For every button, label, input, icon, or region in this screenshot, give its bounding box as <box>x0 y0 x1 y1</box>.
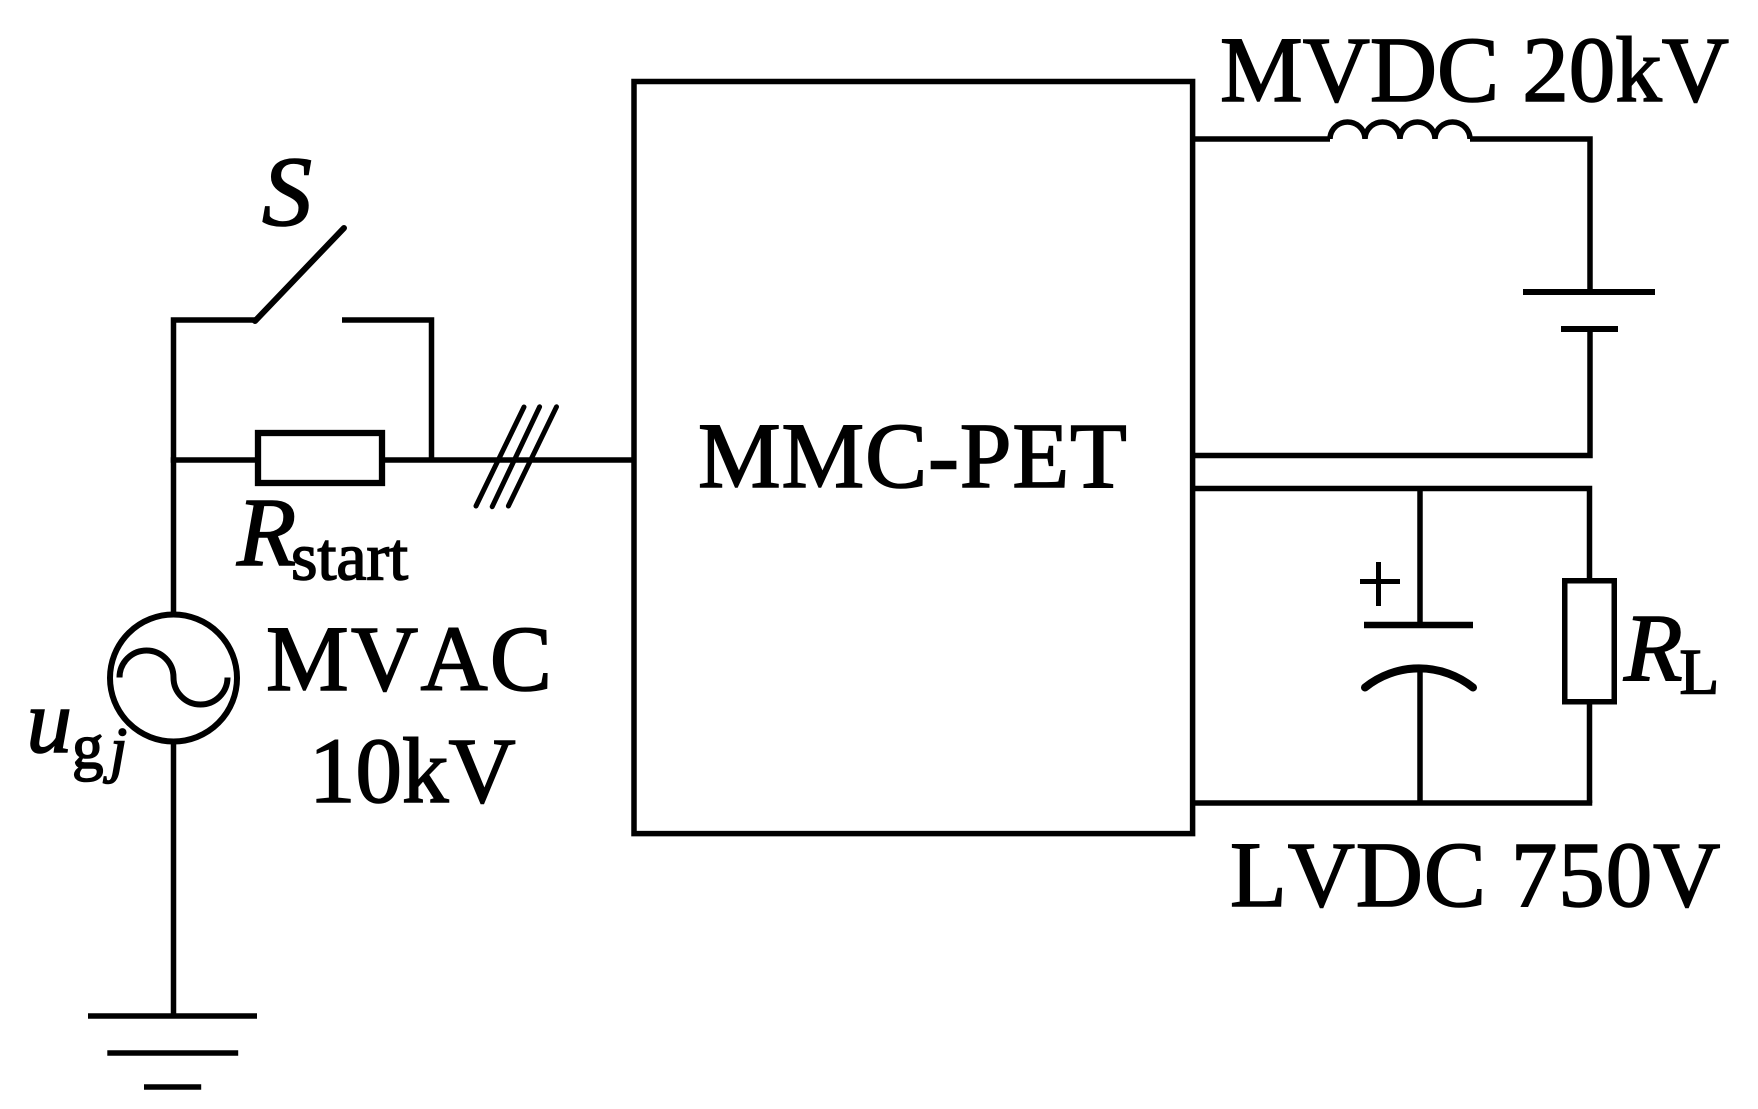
inductor L (MVDC smoothing reactor) <box>1330 122 1470 139</box>
label MVAC 10kV <box>266 608 554 823</box>
capacitor C (LVDC filter), polarized <box>1364 486 1473 803</box>
wire: RL bottom to LVDC return <box>1587 701 1593 803</box>
wire: main AC line left segment <box>171 457 258 463</box>
three-phase marks on AC line <box>476 407 557 507</box>
ground <box>88 1016 257 1087</box>
wire: LVDC return to MMC-PET <box>1192 800 1592 806</box>
label Rstart <box>236 479 408 595</box>
block MMC-PET converter <box>634 82 1193 834</box>
wire: AC source bottom to ground <box>171 742 177 1016</box>
svg-text:MVAC: MVAC <box>266 608 554 711</box>
plus polarity mark <box>1360 562 1400 606</box>
svg-text:start: start <box>291 519 408 595</box>
resistor Rstart <box>258 433 382 483</box>
svg-text:u: u <box>27 671 73 772</box>
svg-text:R: R <box>1623 594 1683 701</box>
svg-text:MVDC 20kV: MVDC 20kV <box>1220 19 1729 122</box>
label RL <box>1623 594 1719 708</box>
svg-text:R: R <box>236 479 296 586</box>
switch S (blade and right contact) <box>255 228 432 462</box>
svg-text:L: L <box>1680 636 1720 708</box>
resistor RL (load) <box>1565 581 1615 702</box>
svg-text:S: S <box>262 136 312 247</box>
wire: MVDC return from battery to MMC-PET <box>1192 329 1590 456</box>
wire: inductor to battery top <box>1470 139 1590 292</box>
battery MVDC source <box>1523 292 1655 329</box>
svg-text:g: g <box>72 712 104 782</box>
svg-text:MMC-PET: MMC-PET <box>698 405 1128 508</box>
wire: main AC line right segment to MMC-PET <box>382 457 634 463</box>
AC source ugj <box>110 615 237 742</box>
svg-text:10kV: 10kV <box>309 720 516 823</box>
label ugj <box>27 671 128 784</box>
wire: LVDC positive from MMC-PET to RL branch corner <box>1192 489 1590 582</box>
wire: left vertical from switch top corner down to AC source top <box>174 320 256 614</box>
wire: MVDC positive from MMC-PET to inductor <box>1192 136 1330 142</box>
svg-text:LVDC 750V: LVDC 750V <box>1230 824 1721 927</box>
